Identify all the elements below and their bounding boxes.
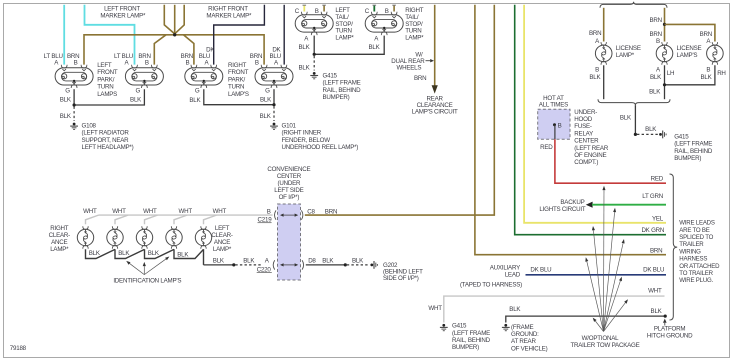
wire YEL stub pin C left tail lamp: [303, 5, 305, 11]
ground G101: [270, 123, 278, 130]
svg-text:DK GRN: DK GRN: [641, 227, 664, 234]
svg-text:LH: LH: [667, 70, 674, 77]
svg-text:LEFT FRONT: LEFT FRONT: [104, 5, 140, 12]
svg-text:RIGHT FRONT: RIGHT FRONT: [208, 5, 248, 12]
svg-text:HOOD: HOOD: [574, 116, 592, 123]
connector E2 LEFT FRONT PARK/TURN lamp 2: [125, 65, 163, 88]
svg-text:CLEAR-: CLEAR-: [49, 232, 71, 239]
svg-text:WIRE PLUG.: WIRE PLUG.: [679, 277, 713, 284]
wire fuse block pin B lead: [554, 125, 556, 139]
svg-text:SIDE OF I/P*): SIDE OF I/P*): [383, 275, 419, 282]
pin C8 connector: [301, 210, 303, 219]
lamp LICENSE LAMPS center: [656, 42, 673, 65]
svg-text:LAMP'S: LAMP'S: [677, 52, 698, 59]
svg-text:BLK: BLK: [620, 115, 632, 122]
lamp identification lamp 3: [166, 226, 182, 248]
svg-text:LIGHTS CIRCUIT: LIGHTS CIRCUIT: [539, 206, 586, 213]
wire brace trailer leads: [670, 174, 678, 320]
svg-text:GROUND:: GROUND:: [511, 331, 539, 338]
svg-text:BLK: BLK: [650, 74, 662, 81]
ground G202: [370, 261, 377, 269]
svg-text:(LEFT FRAME: (LEFT FRAME: [452, 330, 490, 337]
svg-text:BRN: BRN: [414, 75, 426, 82]
wire LT BLU to lamp E1 pin A: [63, 5, 65, 65]
svg-text:CENTER: CENTER: [574, 138, 599, 145]
wire annotation arrow dual rear wheels: [426, 60, 431, 62]
wire connector C220 internal: [284, 264, 289, 266]
svg-text:RAIL, BEHIND: RAIL, BEHIND: [674, 148, 713, 155]
wire BRN splice riser right: [175, 5, 184, 34]
svg-text:BLK: BLK: [148, 250, 160, 257]
svg-text:BLK: BLK: [118, 250, 130, 257]
svg-text:BLK: BLK: [189, 97, 201, 104]
svg-text:G415: G415: [674, 133, 689, 140]
svg-text:(TAPED TO HARNESS): (TAPED TO HARNESS): [460, 281, 522, 288]
node license ground junction: [663, 83, 666, 86]
svg-text:BRN: BRN: [649, 17, 661, 24]
svg-text:UNDER-: UNDER-: [574, 109, 597, 116]
wire LT BLU to lamp E2 pin A: [85, 5, 135, 65]
svg-text:G101: G101: [282, 123, 297, 130]
svg-text:DK BLU: DK BLU: [643, 266, 664, 273]
svg-text:C: C: [295, 8, 300, 15]
svg-text:UNDERHOOD REEL LAMP*): UNDERHOOD REEL LAMP*): [282, 144, 359, 151]
svg-text:OF I/P*): OF I/P*): [279, 194, 300, 201]
svg-text:BLK: BLK: [352, 257, 364, 264]
node IDENTIFICATION LAMPS label: [126, 257, 169, 275]
svg-text:LEFT: LEFT: [215, 225, 230, 232]
svg-text:PARK/: PARK/: [228, 76, 246, 83]
wire BLK to G202: [306, 264, 344, 266]
node license ground junction 2: [634, 133, 637, 136]
svg-text:LEFT SIDE: LEFT SIDE: [274, 187, 303, 194]
svg-text:LAMP*: LAMP*: [616, 52, 635, 59]
svg-text:(RIGHT INNER: (RIGHT INNER: [282, 130, 322, 137]
svg-text:LT BLU: LT BLU: [114, 53, 133, 60]
svg-text:G415: G415: [323, 73, 338, 80]
node splice S1: [173, 33, 176, 36]
svg-text:BRN: BRN: [325, 208, 337, 215]
connector E4 RIGHT FRONT PARK/TURN lamp 2: [255, 65, 293, 88]
svg-text:LEFT HEADLAMP*): LEFT HEADLAMP*): [82, 144, 134, 151]
connector C219/C8 convenience center box: [278, 204, 301, 280]
node platform hitch junction: [664, 315, 667, 318]
svg-text:ARE TO BE: ARE TO BE: [679, 227, 709, 234]
svg-text:BRN: BRN: [589, 30, 601, 37]
pin B fuse block: [553, 123, 556, 126]
svg-text:G: G: [195, 88, 200, 95]
svg-text:LEFT: LEFT: [97, 62, 112, 69]
svg-text:CONVENIENCE: CONVENIENCE: [267, 166, 310, 173]
svg-text:BLK: BLK: [213, 257, 225, 264]
wire BRN stub pin B right tail lamp: [393, 5, 395, 11]
svg-text:PLATFORM: PLATFORM: [654, 325, 686, 332]
svg-text:TURN: TURN: [228, 84, 244, 91]
svg-text:B: B: [656, 38, 660, 45]
connector E3 RIGHT FRONT PARK/TURN lamp 1: [185, 65, 223, 88]
wire BRN convenience center C8: [305, 5, 495, 215]
svg-text:A: A: [125, 60, 130, 67]
svg-text:BLK: BLK: [60, 113, 72, 120]
svg-text:LICENSE: LICENSE: [677, 45, 702, 52]
svg-text:BLK: BLK: [130, 96, 142, 103]
wire BRN bus front park lamps: [84, 35, 264, 65]
svg-text:A: A: [595, 38, 600, 45]
svg-text:BLK: BLK: [60, 96, 72, 103]
svg-text:TURN: TURN: [97, 84, 113, 91]
svg-text:WHT: WHT: [112, 208, 126, 215]
svg-text:ANCE: ANCE: [51, 239, 67, 246]
wire BRN branch to lamp E2 pin B: [154, 35, 166, 65]
svg-text:LICENSE: LICENSE: [616, 45, 641, 52]
svg-text:B: B: [595, 66, 599, 73]
node ground junction right: [272, 103, 275, 106]
svg-text:A: A: [374, 36, 379, 43]
svg-text:BLK: BLK: [260, 113, 272, 120]
svg-text:(UNDER: (UNDER: [278, 180, 301, 187]
svg-text:D8: D8: [308, 257, 316, 264]
svg-text:(LEFT FRAME: (LEFT FRAME: [323, 80, 361, 87]
node ground junction left: [73, 103, 76, 106]
svg-text:B: B: [267, 208, 271, 215]
svg-text:YEL: YEL: [652, 215, 664, 222]
svg-text:BLK: BLK: [649, 89, 661, 96]
svg-text:B: B: [185, 60, 189, 67]
svg-text:A: A: [274, 60, 279, 67]
svg-text:BLK: BLK: [368, 44, 380, 51]
svg-text:WHT: WHT: [143, 208, 157, 215]
ground G415 tail lamps: [310, 72, 318, 79]
svg-text:LAMP*: LAMP*: [335, 35, 354, 42]
svg-text:LAMPS: LAMPS: [97, 91, 117, 98]
wire BLK ground clearance lamp 5: [203, 249, 205, 265]
svg-text:B: B: [558, 122, 562, 129]
svg-text:RELAY: RELAY: [574, 130, 593, 137]
svg-text:G: G: [65, 88, 70, 95]
svg-text:TRAILER TOW PACKAGE: TRAILER TOW PACKAGE: [570, 342, 639, 349]
wire connector C219 internal: [284, 214, 289, 216]
svg-text:WIRE LEADS: WIRE LEADS: [679, 220, 715, 227]
svg-text:B: B: [385, 8, 389, 15]
svg-text:B: B: [74, 60, 78, 67]
svg-text:(LEFT RADIATOR: (LEFT RADIATOR: [82, 130, 130, 137]
svg-text:A: A: [54, 60, 59, 67]
svg-text:BLK: BLK: [177, 252, 189, 259]
svg-text:BLK: BLK: [700, 74, 712, 81]
svg-text:B: B: [706, 66, 710, 73]
svg-text:AUXILIARY: AUXILIARY: [490, 264, 520, 271]
svg-text:SPLICED TO: SPLICED TO: [679, 234, 713, 241]
svg-text:WHEELS: WHEELS: [396, 65, 421, 72]
lamp identification lamp 2: [136, 226, 152, 248]
svg-text:G108: G108: [82, 123, 97, 130]
wire brace license feed: [600, 2, 667, 8]
svg-text:LAMP*: LAMP*: [50, 246, 69, 253]
svg-text:(LEFT FRAME: (LEFT FRAME: [674, 141, 712, 148]
svg-text:PARK/: PARK/: [97, 76, 115, 83]
node chain junction: [232, 263, 235, 266]
svg-text:A: A: [656, 66, 661, 73]
svg-text:DK BLU: DK BLU: [530, 266, 551, 273]
svg-text:A: A: [706, 38, 711, 45]
svg-text:RED: RED: [540, 144, 553, 151]
svg-text:LAMP'S CIRCUIT: LAMP'S CIRCUIT: [412, 109, 458, 116]
svg-text:RIGHT: RIGHT: [228, 62, 247, 69]
svg-text:OR ATTACHED: OR ATTACHED: [679, 263, 720, 270]
lamp identification lamp 1: [107, 226, 123, 248]
svg-text:IDENTIFICATION LAMP'S: IDENTIFICATION LAMP'S: [113, 277, 181, 284]
svg-text:G: G: [265, 88, 270, 95]
node splice license: [663, 23, 666, 26]
lamp LICENSE LAMP left: [595, 42, 612, 65]
svg-text:FENDER, BELOW: FENDER, BELOW: [282, 137, 331, 144]
svg-text:LEAD: LEAD: [505, 272, 521, 279]
svg-text:BUMPER): BUMPER): [452, 344, 479, 351]
svg-text:G415: G415: [452, 323, 467, 330]
ground frame ground rear: [502, 324, 510, 331]
svg-text:LT GRN: LT GRN: [642, 193, 663, 200]
connector E1 LEFT FRONT PARK/TURN lamp 1: [55, 65, 93, 88]
node G202 junction: [344, 263, 347, 266]
wire BRN splice riser left: [164, 5, 174, 34]
svg-text:RH: RH: [717, 70, 726, 77]
svg-text:A: A: [265, 257, 270, 264]
svg-text:B: B: [315, 8, 319, 15]
wire BRN splice riser middle: [174, 5, 176, 34]
svg-text:A: A: [204, 60, 209, 67]
wire GRN stub pin C right tail lamp: [373, 5, 375, 11]
svg-text:BLK: BLK: [89, 250, 101, 257]
pin D8 connector: [302, 260, 304, 269]
wire brace license grounds: [598, 99, 670, 105]
svg-text:MARKER LAMP*: MARKER LAMP*: [100, 12, 146, 19]
svg-text:RED: RED: [651, 175, 664, 182]
svg-text:TO TRAILER: TO TRAILER: [679, 270, 713, 277]
svg-text:WHT: WHT: [648, 287, 662, 294]
svg-text:B: B: [145, 60, 149, 67]
svg-text:BLK: BLK: [589, 74, 601, 81]
lamp clearance lamp 2 (left): [195, 226, 211, 248]
svg-text:A: A: [304, 36, 309, 43]
svg-text:79188: 79188: [10, 345, 27, 352]
svg-text:RIGHT: RIGHT: [50, 225, 69, 232]
svg-text:HARNESS: HARNESS: [679, 256, 707, 263]
svg-text:LAMP*: LAMP*: [213, 246, 232, 253]
wire LT GRN trailer: [586, 202, 593, 208]
ground G415 license: [659, 131, 666, 139]
svg-text:LT BLU: LT BLU: [44, 53, 63, 60]
svg-text:BUMPER): BUMPER): [323, 94, 350, 101]
svg-text:LAMP*: LAMP*: [405, 35, 424, 42]
svg-text:OF ENGINE: OF ENGINE: [574, 152, 606, 159]
svg-text:WHT: WHT: [178, 208, 192, 215]
svg-text:BLK: BLK: [322, 257, 334, 264]
wire annotation arrows optional tow package: [585, 186, 628, 332]
svg-text:COMPT.): COMPT.): [574, 159, 598, 166]
wire DK BLU to lamp E4 pin A: [283, 5, 285, 65]
svg-text:FRONT: FRONT: [97, 69, 118, 76]
svg-text:B: B: [255, 60, 259, 67]
node PLATFORM HITCH GROUND label: [664, 323, 666, 326]
wire BRN branch to lamp E3 pin B: [183, 35, 194, 65]
lamp LICENSE LAMPS right: [707, 42, 724, 65]
svg-text:BLK: BLK: [645, 126, 657, 133]
svg-text:BLK: BLK: [298, 65, 310, 72]
svg-text:FRONT: FRONT: [228, 69, 249, 76]
svg-text:SUPPORT, NEAR: SUPPORT, NEAR: [82, 137, 130, 144]
svg-text:MARKER LAMP*: MARKER LAMP*: [206, 12, 252, 19]
wire DK GRN trailer: [515, 5, 666, 235]
svg-text:OF VEHICLE): OF VEHICLE): [511, 345, 548, 352]
svg-text:FUSE-: FUSE-: [574, 123, 592, 130]
svg-text:BLK: BLK: [243, 257, 255, 264]
svg-text:CENTER: CENTER: [277, 173, 302, 180]
lamp clearance lamp 1 (right): [77, 226, 93, 248]
svg-text:(LEFT REAR: (LEFT REAR: [574, 145, 609, 152]
fuse block B+ box: [538, 109, 570, 139]
svg-text:C: C: [365, 8, 370, 15]
svg-text:BLK: BLK: [298, 44, 310, 51]
svg-text:W/OPTIONAL: W/OPTIONAL: [582, 335, 619, 342]
ground G108: [70, 123, 78, 130]
svg-text:RAIL, BEHIND: RAIL, BEHIND: [452, 337, 491, 344]
svg-text:G: G: [136, 88, 141, 95]
svg-text:BRN: BRN: [650, 247, 662, 254]
svg-text:ALL TIMES: ALL TIMES: [539, 102, 568, 109]
svg-text:BLK: BLK: [651, 308, 663, 315]
svg-text:WHT: WHT: [428, 305, 442, 312]
svg-text:ANCE: ANCE: [214, 239, 230, 246]
node tail ground junction: [313, 53, 316, 56]
svg-text:WHT: WHT: [83, 208, 97, 215]
svg-text:BACKUP: BACKUP: [560, 199, 584, 206]
svg-text:TRAILER: TRAILER: [679, 241, 704, 248]
svg-text:LAMP'S: LAMP'S: [228, 91, 249, 98]
ground G415 bottom: [440, 324, 448, 331]
svg-text:BLK: BLK: [260, 96, 272, 103]
wire DK BLU to lamp E3 pin A: [214, 5, 265, 65]
wire BRN stub pin B left tail lamp: [323, 5, 325, 11]
wire YEL trailer: [524, 5, 666, 223]
svg-text:(FRAME: (FRAME: [511, 324, 533, 331]
svg-text:BUMPER): BUMPER): [674, 155, 701, 162]
svg-text:HITCH GROUND: HITCH GROUND: [647, 333, 693, 340]
svg-text:RAIL, BEHIND: RAIL, BEHIND: [323, 87, 362, 94]
svg-text:BLK: BLK: [509, 306, 521, 313]
svg-text:C8: C8: [307, 208, 315, 215]
svg-text:WIRING: WIRING: [679, 248, 701, 255]
wire WHT clearance bus: [99, 214, 273, 216]
svg-text:WHT: WHT: [213, 208, 227, 215]
svg-text:CLEAR-: CLEAR-: [211, 232, 233, 239]
svg-text:AT REAR: AT REAR: [511, 338, 536, 345]
wire BRN trailer feed: [475, 5, 666, 255]
